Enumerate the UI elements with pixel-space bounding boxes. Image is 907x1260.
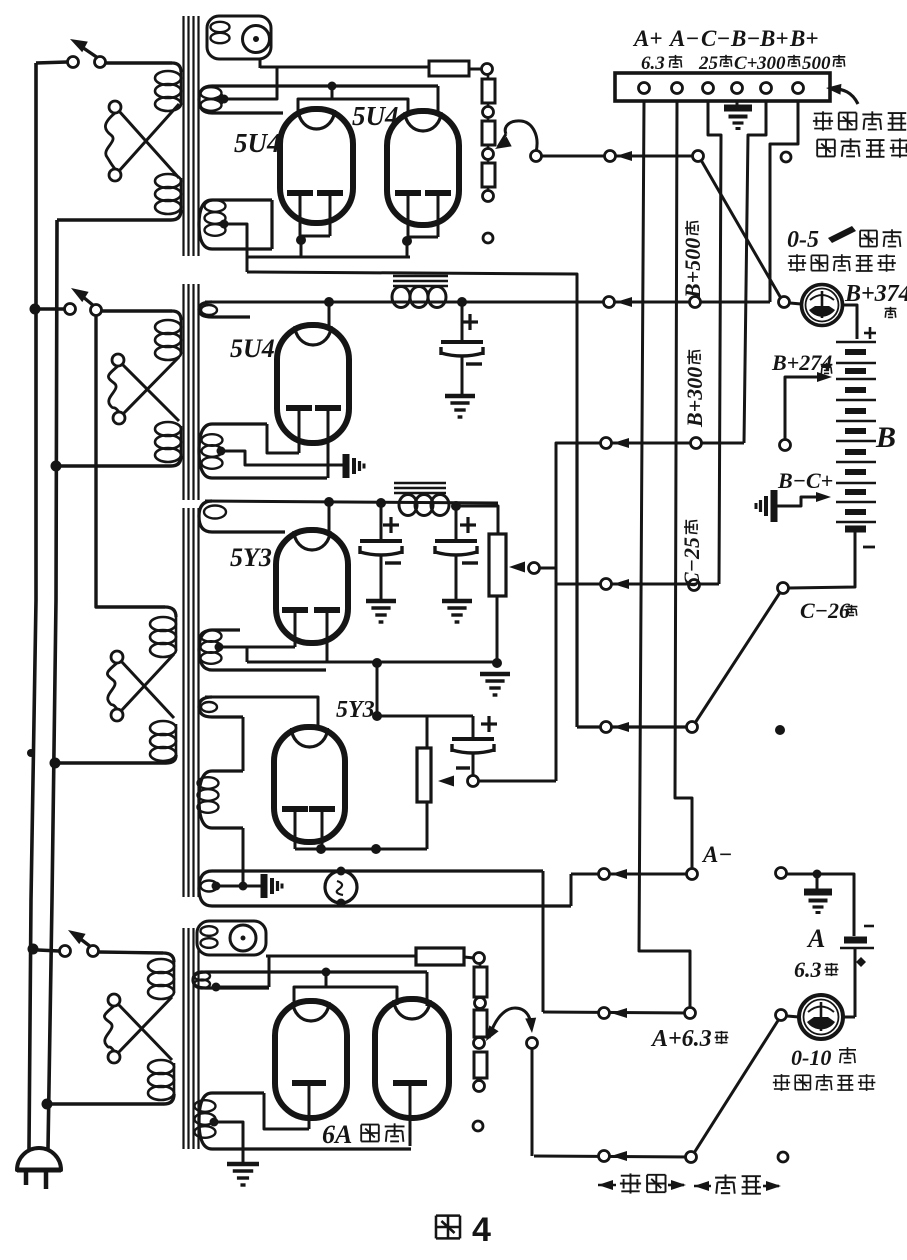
node mains junction block5 bottom — [42, 1099, 53, 1110]
node cap winding tap — [212, 983, 221, 992]
svg-text:A−: A− — [668, 26, 699, 51]
ground block2 filament — [343, 454, 350, 478]
label meter M1 line2 — [789, 255, 806, 257]
ac plug P1 — [17, 1148, 61, 1170]
wire diagonal row8 to ammeter — [694, 1019, 779, 1153]
pilot lamp L2 in A- loop — [325, 871, 357, 903]
svg-text:B+500: B+500 — [680, 238, 705, 299]
ground block3 rail — [480, 672, 510, 677]
transformer T1 HV secondary winding — [199, 86, 438, 113]
resistor R10 — [474, 1052, 487, 1078]
svg-text:25: 25 — [698, 53, 719, 74]
choke CH1 — [393, 275, 448, 278]
tube V1 plates — [287, 190, 313, 196]
wire filament loop to V6 — [264, 1093, 309, 1129]
terminal TB1-4 — [732, 83, 743, 94]
ground A battery — [804, 889, 832, 896]
tube V2 plates — [395, 190, 421, 196]
capacitor C3 — [455, 506, 458, 539]
wire row B+ selector — [531, 151, 542, 162]
terminal chain1 — [475, 998, 486, 1009]
transformer T3 core — [182, 508, 184, 897]
node cap C3 feed — [451, 501, 461, 511]
terminal row2 mid — [604, 297, 615, 308]
capacitor C1 — [461, 302, 464, 340]
label AC range — [598, 1180, 613, 1190]
transformer T1 primary upper winding — [172, 63, 181, 72]
capacitor C2 — [380, 503, 383, 539]
crossover X4 — [108, 994, 120, 1006]
wire selector arrow block1 — [505, 121, 537, 152]
node mains junction block2 — [30, 304, 41, 315]
wire B-C+ tap — [774, 497, 818, 506]
ground block5 filament — [227, 1162, 259, 1167]
svg-text:B−: B− — [730, 26, 760, 51]
terminal stray near board — [781, 152, 791, 162]
node filament tap block2 — [217, 447, 226, 456]
terminal battery minus — [778, 583, 789, 594]
terminal C4 bottom — [468, 776, 479, 787]
svg-text:5U4: 5U4 — [234, 128, 281, 158]
node filter cap C1 feed — [457, 297, 467, 307]
transformer T2 primary lower winding — [155, 422, 181, 436]
terminal spare block5 — [473, 1121, 483, 1131]
node plate feed V3 — [324, 297, 334, 307]
label meter M2 line2 — [774, 1075, 790, 1077]
transformer T3 HV secondary — [199, 501, 285, 532]
ground C1 — [445, 394, 475, 399]
pilot lamp L3 winding — [201, 926, 218, 936]
terminal A battery feed — [776, 868, 787, 879]
svg-text:500: 500 — [802, 53, 831, 74]
terminal row3 mid — [601, 438, 612, 449]
svg-text:B+: B+ — [759, 26, 788, 51]
node cap C2 feed — [376, 498, 386, 508]
node rail end — [492, 658, 502, 668]
node stray dot — [775, 725, 785, 735]
svg-text:300: 300 — [756, 53, 786, 74]
wire row3 B+300 — [556, 443, 744, 781]
bus C-25 — [708, 101, 721, 584]
svg-text:C−26: C−26 — [800, 598, 850, 623]
terminal row1 mid — [605, 151, 616, 162]
switch S3 — [38, 950, 59, 951]
wire switch S2 to T3 primary — [96, 315, 165, 607]
battery BT1 B stack — [836, 341, 876, 343]
resistor R7 — [416, 948, 464, 965]
transformer T4 primary lower winding — [148, 1060, 174, 1074]
terminal row8 mid — [599, 1151, 610, 1162]
wire R5 bottom to rail — [496, 596, 499, 663]
wire B+274 tap — [785, 377, 820, 441]
transformer T4 primary upper winding — [163, 953, 174, 962]
node filament tap block3 — [215, 643, 224, 652]
pilot lamp L1 winding — [211, 22, 230, 32]
svg-text:4: 4 — [472, 1211, 491, 1249]
terminal row4 right — [689, 580, 700, 591]
wire block4 cathode rail — [295, 848, 427, 851]
svg-text:B: B — [875, 421, 896, 454]
svg-text:0-10: 0-10 — [791, 1045, 831, 1070]
transformer T4 filament winding lower — [199, 1093, 411, 1149]
rectifier tube V2 5U4 — [387, 111, 459, 225]
terminal row4 mid — [601, 579, 612, 590]
transformer T2 HV secondary — [199, 302, 250, 317]
wire mains left conductor — [29, 63, 36, 1149]
transformer T3 primary lower winding — [150, 721, 176, 735]
resistor R5 bleeder — [489, 534, 506, 596]
wire tap to ground — [216, 885, 262, 888]
terminal row2 right — [690, 297, 701, 308]
svg-text:5Y3: 5Y3 — [230, 543, 272, 572]
wire filament to A- tap — [242, 828, 245, 886]
node mains junction block2 bottom — [51, 461, 62, 472]
wire HV bottom to filament — [242, 717, 245, 771]
svg-text:A+: A+ — [632, 26, 662, 51]
terminal row7 mid — [599, 1008, 610, 1019]
meter M1 0-5mA — [779, 297, 790, 308]
transformer T2 core — [182, 284, 184, 500]
arrow to board — [830, 88, 858, 104]
wire row5 C-26 — [575, 443, 578, 727]
node HV center tap block1 — [220, 95, 229, 104]
wire row4 C-25 — [556, 583, 719, 586]
caption figure 4 — [436, 1214, 460, 1217]
switch S1 — [36, 62, 67, 63]
tube V6 plate — [292, 1080, 326, 1086]
svg-text:5U4: 5U4 — [352, 101, 399, 131]
svg-text:6A: 6A — [322, 1120, 352, 1149]
svg-text:6.3: 6.3 — [794, 957, 822, 982]
wire filament tap to cathode rail — [224, 224, 247, 272]
rectifier tube V7 6A — [375, 999, 449, 1118]
terminal spare block1 — [483, 233, 493, 243]
wire diagonal row5 to battery minus — [695, 591, 781, 723]
node mains junction block3 bottom — [50, 758, 61, 769]
svg-text:B+274: B+274 — [771, 350, 832, 375]
tube V7 plate — [393, 1080, 427, 1086]
svg-text:B+: B+ — [789, 26, 818, 51]
node A- winding tap — [212, 882, 221, 891]
wire row block3 output — [205, 501, 498, 503]
crossover X3 — [111, 651, 123, 663]
bus B+300 — [744, 101, 766, 443]
terminal row8 spare — [778, 1152, 788, 1162]
wire HV tap to divider — [224, 67, 277, 99]
terminal row6 right — [687, 869, 698, 880]
ground board B- — [736, 101, 739, 108]
label to amplifier line1 — [814, 113, 832, 115]
battery BT2 A cell — [844, 937, 867, 944]
terminal tap3 — [487, 187, 490, 190]
wire plate caps 6A — [426, 972, 429, 1006]
transformer T2 filament winding — [199, 424, 327, 478]
terminal TB1-1 — [639, 83, 650, 94]
transformer T3 filament winding — [199, 630, 326, 670]
ground A- winding — [261, 874, 268, 898]
wire row8 selector — [534, 1156, 691, 1157]
node plate feed V4 — [324, 497, 334, 507]
node V1 cathode junction — [296, 235, 306, 245]
wire to bleeder R5 — [456, 506, 498, 534]
svg-text:B+374: B+374 — [844, 281, 907, 307]
wire V3 cathode loop — [267, 424, 299, 453]
tube V3 plates — [286, 405, 312, 411]
terminal R5 tap — [509, 562, 525, 573]
svg-text:5U4: 5U4 — [230, 334, 275, 363]
terminal chain2 — [474, 1038, 485, 1049]
rectifier tube V5 5Y3 — [274, 727, 345, 842]
bus A- — [675, 101, 692, 869]
terminal row3 right — [691, 438, 702, 449]
svg-text:B+300: B+300 — [682, 367, 707, 428]
capacitor C4 — [472, 716, 475, 737]
terminal TB1-2 — [672, 83, 683, 94]
pilot lamp L3 enclosure — [197, 921, 266, 955]
transformer T3 primary upper winding — [150, 617, 176, 631]
node mains junction block3 — [27, 749, 35, 757]
transformer T4 HV secondary — [199, 697, 243, 717]
bus B+500 — [770, 101, 798, 302]
resistor R1 divider feed — [429, 61, 469, 76]
terminal row1 right — [693, 151, 704, 162]
svg-text:A: A — [806, 924, 825, 953]
wire selector arrow block5 — [489, 1008, 531, 1038]
wire tap block3 — [219, 646, 295, 649]
svg-text:B−C+: B−C+ — [777, 468, 833, 493]
resistor R3 — [487, 117, 490, 121]
transformer T1 core — [182, 16, 184, 256]
node filament tap block1 — [220, 220, 229, 229]
wire rail to block4 — [376, 663, 379, 716]
ground C2 — [366, 599, 396, 604]
wire C4 to bus — [479, 780, 556, 783]
wire battery bottom — [789, 532, 855, 588]
transformer T4 A- winding — [199, 871, 571, 906]
node filament tap block5 — [210, 1118, 219, 1127]
wire row6 A- — [571, 873, 692, 876]
transformer T4 core — [182, 928, 184, 1149]
svg-text:A+6.3: A+6.3 — [650, 1026, 712, 1052]
pilot lamp L3 bulb — [230, 925, 256, 951]
wire row7 A+6.3 — [543, 1012, 690, 1013]
tube V5 plates — [282, 806, 308, 812]
svg-text:C−: C− — [701, 26, 730, 51]
terminal row5 right — [687, 722, 698, 733]
tube V4 plates — [282, 607, 308, 613]
svg-text:6.3: 6.3 — [641, 53, 665, 74]
node mains junction block5 — [28, 944, 39, 955]
svg-text:C−25: C−25 — [679, 537, 704, 587]
rectifier tube V4 5Y3 — [276, 530, 348, 643]
label bus B+300V — [682, 350, 707, 428]
wire meter to battery — [842, 305, 857, 339]
label DC range — [694, 1181, 709, 1191]
resistor R9 — [474, 1010, 487, 1037]
terminal selector output — [527, 1038, 538, 1049]
choke CH2 — [394, 482, 446, 485]
meter M2 0-10A — [799, 995, 843, 1039]
switch S2 — [40, 307, 64, 310]
resistor chain R8 — [479, 963, 482, 967]
wire diagonal to charge meter — [701, 160, 782, 300]
svg-text:0-5: 0-5 — [787, 227, 819, 253]
rectifier tube V6 6A — [275, 1001, 347, 1118]
terminal row6 mid — [599, 869, 610, 880]
terminal row7 right — [685, 1008, 696, 1019]
terminal row5 mid — [601, 722, 612, 733]
terminal TB1-3 — [703, 83, 714, 94]
ground C3 — [442, 599, 472, 604]
wire block3 cathode rail — [247, 661, 497, 664]
terminal row8 right — [686, 1152, 697, 1163]
wire tap to ground block2 — [221, 451, 343, 465]
svg-text:C+: C+ — [734, 53, 758, 74]
transformer T1 filament winding 5V — [199, 200, 272, 249]
resistor R4 — [487, 159, 490, 163]
terminal board TB1 — [615, 73, 830, 101]
wire lamp L1 to resistor row — [259, 59, 262, 68]
pilot lamp L1 bulb — [243, 26, 270, 53]
transformer T2 primary upper winding — [172, 311, 181, 320]
wire A battery top — [787, 874, 854, 936]
resistor R6 bleeder — [426, 716, 429, 748]
terminal TB1-5 — [761, 83, 772, 94]
rectifier tube V1 5U4 — [280, 109, 353, 223]
label bus C-25V — [679, 520, 704, 587]
terminal B+274 — [780, 440, 791, 451]
pilot lamp L1 enclosure — [207, 16, 271, 59]
transformer T4 filament winding — [199, 771, 243, 828]
wire A- stadium jog — [542, 871, 545, 1012]
wire row2 B+500 rail — [205, 301, 770, 304]
node rail junction — [372, 658, 382, 668]
node V2 cathode junction — [402, 236, 412, 246]
wire plate feed V5 — [205, 697, 318, 729]
label to amplifier line2 — [817, 139, 835, 141]
transformer T4b cap winding — [193, 972, 427, 988]
label bus B+500V — [680, 221, 705, 299]
crossover X2 — [112, 354, 124, 366]
terminal TB1-6 — [793, 83, 804, 94]
wire plate bracket block1 — [328, 82, 337, 91]
wire lamp row to resistor R7 — [266, 955, 416, 958]
svg-text:A−: A− — [701, 842, 732, 867]
rectifier tube V3 5U4 — [277, 325, 349, 443]
ground B-C+ — [771, 490, 778, 522]
wire block1 B output — [247, 272, 577, 443]
terminal divider top — [482, 64, 493, 75]
wire mains right conductor — [48, 220, 57, 1149]
terminal R7 right — [474, 953, 485, 964]
wire block4 row — [377, 715, 473, 718]
svg-text:5Y3: 5Y3 — [336, 697, 375, 723]
transformer T1 primary lower winding — [155, 174, 181, 188]
terminal chain3 — [474, 1081, 485, 1092]
bus A+6.3 — [639, 101, 690, 1008]
terminal tap1 — [487, 103, 490, 106]
crossover X1 — [109, 101, 121, 113]
resistor R2 — [487, 74, 490, 79]
terminal tap2 — [487, 145, 490, 148]
